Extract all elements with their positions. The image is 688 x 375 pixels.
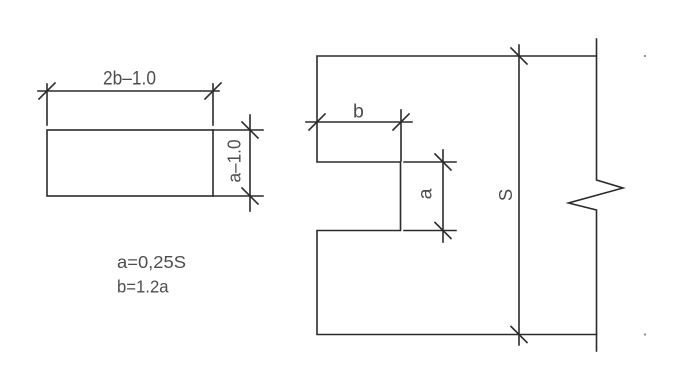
stray mark bottom right [644, 333, 646, 335]
dimension line a-1.0 [249, 115, 251, 211]
extension line (left, top dimension) [46, 84, 48, 125]
dimension line b [306, 121, 412, 123]
notched block outline (right figure) [317, 56, 597, 335]
tick bottom of S [511, 327, 527, 343]
tick top of a [435, 154, 451, 170]
tick right of b [393, 114, 409, 130]
svg-text:b=1.2a: b=1.2a [117, 277, 169, 297]
dimension line a [442, 150, 444, 242]
extension line (right, top dimension) [212, 84, 214, 125]
svg-text:S: S [495, 189, 516, 201]
svg-text:a=0,25S: a=0,25S [117, 252, 186, 272]
stray mark top right [644, 55, 646, 57]
tick top of a-1.0 [242, 122, 258, 138]
tick bottom of a-1.0 [242, 188, 258, 204]
tick left of b [309, 114, 325, 130]
right edge with break symbol [569, 39, 624, 351]
tick top of S [511, 48, 527, 64]
extension line (right, b dimension) [400, 110, 402, 161]
svg-text:a: a [415, 188, 437, 199]
svg-text:a–1.0: a–1.0 [225, 140, 245, 183]
extension line (bottom, a-1.0 dimension) [213, 195, 263, 197]
extension line (top, a dimension) [404, 161, 456, 163]
svg-text:2b–1.0: 2b–1.0 [103, 68, 156, 90]
dimension line S [518, 45, 520, 345]
tick right of 2b-1.0 [205, 83, 221, 99]
svg-text:b: b [353, 101, 364, 123]
dimension line 2b-1.0 [38, 90, 219, 92]
plate outline (left figure rectangle) [47, 130, 213, 196]
extension line (top, a-1.0 dimension) [213, 129, 263, 131]
extension line (bottom, a dimension) [404, 230, 456, 232]
tick bottom of a [435, 223, 451, 239]
tick left of 2b-1.0 [39, 83, 55, 99]
